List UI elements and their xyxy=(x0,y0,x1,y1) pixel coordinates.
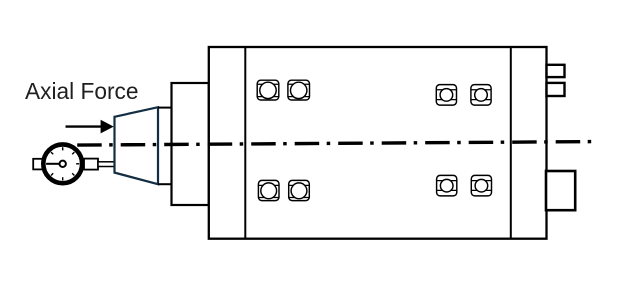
front bearing bottom-right xyxy=(289,180,310,200)
tool holder taper cone xyxy=(115,107,159,184)
rear bearing top-left xyxy=(436,85,456,106)
axial force arrow xyxy=(66,120,114,134)
spindle nose rectangle xyxy=(172,83,209,205)
svg-text:Axial Force: Axial Force xyxy=(25,78,138,104)
flange top line xyxy=(158,107,172,109)
rear connector block lower xyxy=(547,83,565,96)
rear bearing top-right xyxy=(471,85,491,106)
front bearing bottom-left xyxy=(258,180,279,200)
dial center hub xyxy=(60,161,66,167)
dial indicator left lug xyxy=(33,159,42,170)
front bearing top-right xyxy=(288,80,310,100)
rear bottom block xyxy=(546,171,575,210)
dial indicator body ring xyxy=(43,144,82,183)
spindle housing body xyxy=(209,47,547,239)
rear bearing bottom-right xyxy=(471,175,491,196)
dial indicator plunger xyxy=(98,162,115,167)
flange bottom line xyxy=(158,183,172,185)
front bearing top-left xyxy=(257,80,279,100)
dial needle xyxy=(46,163,60,165)
spindle axis centerline xyxy=(77,142,592,146)
rear bearing bottom-left xyxy=(437,175,457,196)
dial indicator stem xyxy=(84,159,98,170)
rear connector block upper xyxy=(547,65,565,77)
rear internal partition line xyxy=(510,47,512,239)
front internal partition line xyxy=(244,47,246,239)
dial face ticks xyxy=(46,147,79,180)
